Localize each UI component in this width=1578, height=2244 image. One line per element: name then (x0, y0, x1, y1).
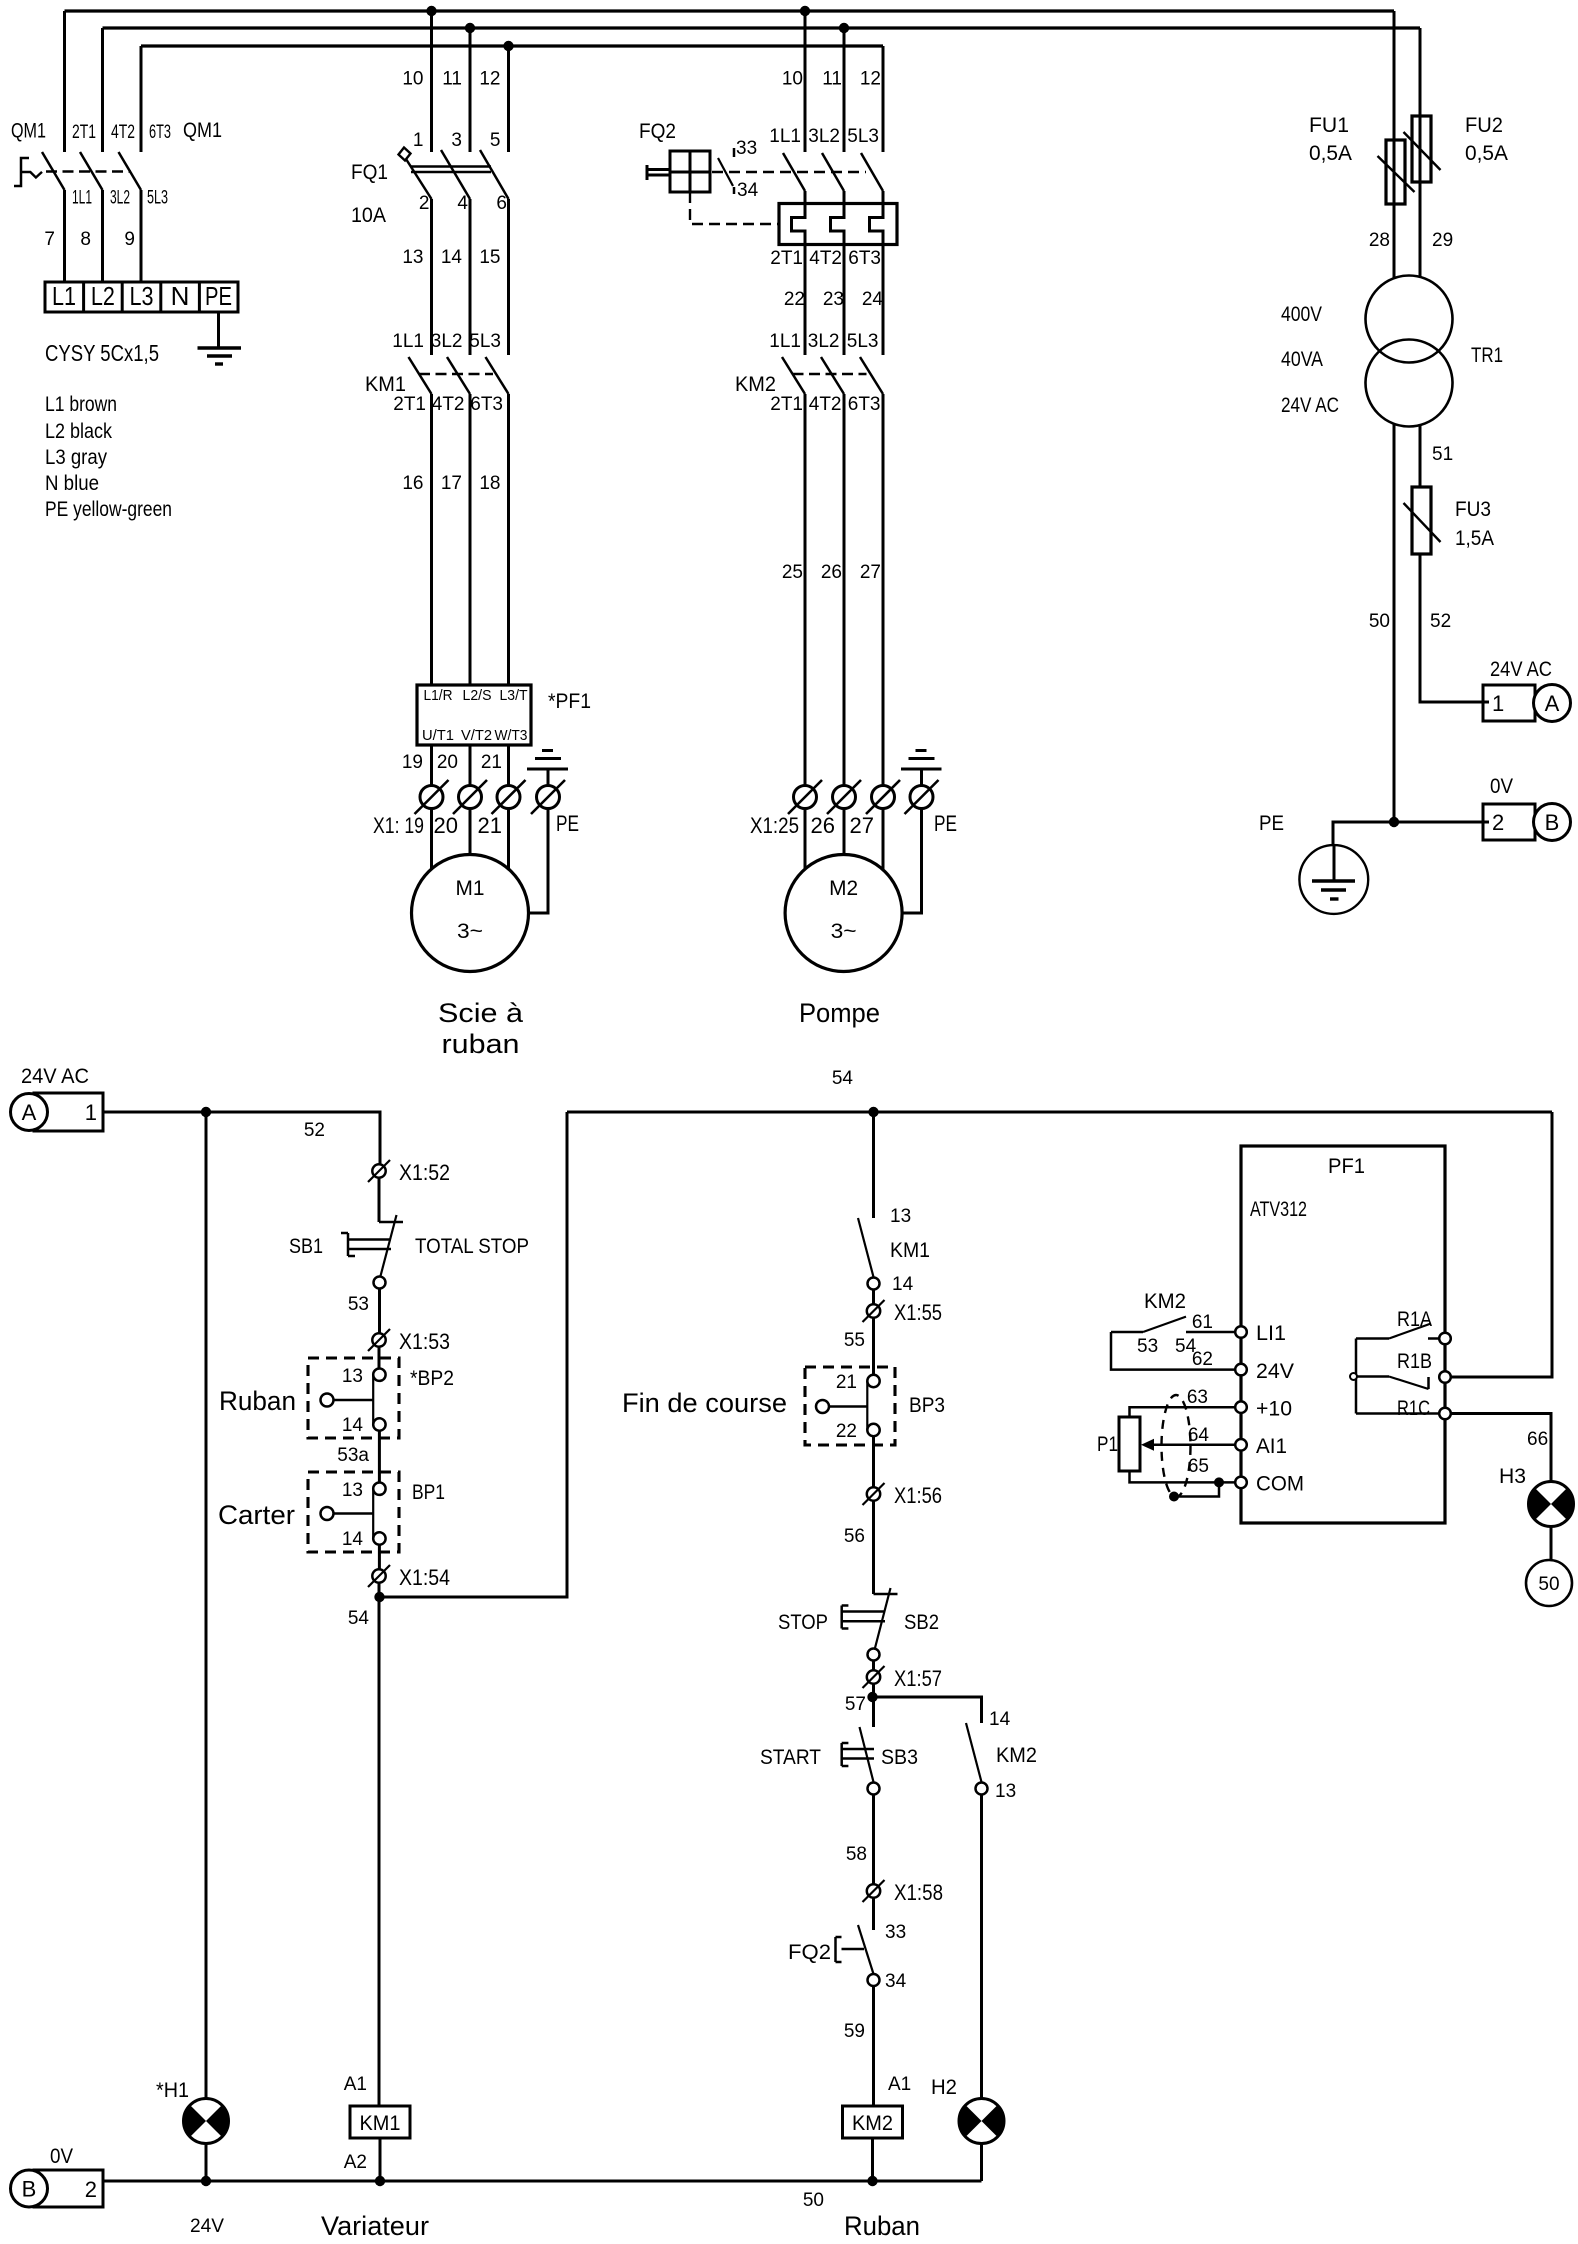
label H3 (1499, 1465, 1526, 1488)
svg-text:2T1: 2T1 (72, 122, 96, 143)
terminal X1:PE (saw) (531, 780, 565, 814)
label ATV312 (1250, 1198, 1307, 1221)
label 50 (node) (803, 2190, 824, 2211)
svg-text:V/T2: V/T2 (461, 727, 492, 744)
svg-text:2: 2 (1492, 810, 1504, 835)
svg-text:22: 22 (784, 289, 805, 310)
terminal X1:20 (453, 780, 487, 814)
svg-text:13: 13 (342, 1366, 363, 1387)
pin 1L1 (QM1) (72, 188, 92, 209)
svg-text:10: 10 (402, 69, 423, 90)
node junction KM2/0V (867, 2176, 877, 2186)
wire 54 (down to KM1 coil) (348, 1583, 379, 2106)
wire 23 (823, 289, 844, 310)
pin 1L1 (KM1) (392, 331, 424, 352)
indicator lamp H1 (184, 2099, 229, 2144)
pin 3L2 (KM1) (431, 331, 463, 352)
label SB3 (881, 1746, 918, 1769)
pin 34 (FQ2 top) (737, 180, 759, 201)
fuse FU1 (0,5A) (1378, 140, 1415, 204)
pin 6T3 (KM2) (848, 394, 881, 415)
wire M2 U (804, 809, 807, 873)
terminal strip L1 L2 L3 N PE (45, 281, 238, 312)
svg-text:L3: L3 (130, 281, 154, 311)
label H2 (931, 2076, 957, 2099)
wire 27 (860, 394, 883, 786)
pin 1L1 (FQ2) (769, 126, 801, 147)
terminal X1:26 (827, 780, 861, 814)
label *H1 (156, 2079, 189, 2102)
svg-text:A1: A1 (888, 2074, 911, 2095)
svg-text:M2: M2 (829, 877, 858, 900)
terminal AI1 (PF1) (1235, 1435, 1287, 1458)
terminal LI1 (PF1) (1235, 1322, 1286, 1345)
label A2 (KM1 coil) (344, 2152, 367, 2173)
svg-text:2: 2 (419, 193, 430, 214)
wire 57 (845, 1684, 874, 1727)
wire M2 PE (902, 809, 922, 914)
wire 11 (pump) (822, 28, 844, 152)
svg-text:3L2: 3L2 (808, 331, 840, 352)
wire KM1 aux to X1:55 (872, 1290, 875, 1305)
label 54 (bus) (832, 1068, 854, 1089)
wire 15 (479, 199, 508, 355)
pin 3L2 (FQ2) (808, 126, 840, 147)
label PE yellow-green (45, 498, 172, 521)
wire 24V control bus (A) (103, 1112, 380, 1164)
svg-text:SB1: SB1 (289, 1235, 323, 1258)
wire mechanical link FQ2 contacts (712, 171, 866, 173)
pin 21 (BP3) (836, 1372, 857, 1393)
wire QM1 pole1 feed (63, 11, 66, 152)
wire 12 (pump) (860, 46, 883, 152)
svg-text:1L1: 1L1 (72, 188, 92, 209)
svg-text:2T1: 2T1 (393, 394, 426, 415)
wire 29 (L2 to FU2/TR1) (1420, 28, 1453, 277)
wire M1 V (469, 809, 472, 857)
wire QM1 pole3 feed (140, 46, 143, 152)
svg-text:TOTAL STOP: TOTAL STOP (415, 1235, 529, 1258)
label L2 black (45, 420, 112, 443)
svg-text:14: 14 (342, 1529, 364, 1550)
pin 5L3 (QM1) (147, 188, 168, 209)
svg-text:6T3: 6T3 (848, 394, 881, 415)
svg-text:KM2: KM2 (852, 2112, 893, 2135)
drive PF1 ATV312 (control box) (1241, 1146, 1445, 1523)
wire 0V to connector B (1394, 821, 1489, 824)
svg-text:1L1: 1L1 (769, 331, 801, 352)
node junction 57 (867, 1692, 877, 1702)
label FU3 1,5A (1455, 498, 1494, 550)
svg-text:54: 54 (832, 1068, 854, 1089)
svg-text:25: 25 (782, 562, 803, 583)
pushbutton BP1 Carter (NO, pins 13-14) (308, 1472, 399, 1552)
svg-text:X1:53: X1:53 (399, 1329, 450, 1354)
wire 21 (481, 745, 509, 786)
contact FQ2 33-34 (power side) (718, 148, 734, 194)
svg-text:R1A: R1A (1397, 1308, 1432, 1331)
label Fin de course (622, 1388, 787, 1418)
svg-text:SB2: SB2 (904, 1611, 939, 1634)
label 26 (X1) (811, 813, 835, 838)
wire 55 (844, 1318, 874, 1375)
svg-text:3: 3 (451, 130, 462, 151)
pin 4T2 (KM1) (432, 394, 465, 415)
svg-text:*BP2: *BP2 (410, 1367, 454, 1390)
terminal X1:21 (492, 780, 526, 814)
wire 10 (402, 69, 423, 90)
wire 57 to KM2 aux branch (874, 1697, 982, 1723)
pin 3L2 (QM1) (110, 188, 130, 209)
node junction COM/shield (1214, 1477, 1224, 1487)
pin 2 (FQ1) (419, 193, 430, 214)
svg-text:13: 13 (995, 1781, 1016, 1802)
fuse FU2 (0,5A) (1404, 116, 1441, 182)
svg-text:1: 1 (85, 1100, 97, 1125)
svg-text:14: 14 (441, 247, 463, 268)
svg-text:65: 65 (1188, 1456, 1209, 1477)
label *PF1 (548, 690, 591, 713)
coil KM2 (Ruban contactor) (843, 2106, 903, 2138)
svg-text:27: 27 (850, 813, 874, 838)
svg-text:24V AC: 24V AC (1281, 394, 1339, 417)
svg-text:53a: 53a (337, 1445, 369, 1466)
svg-text:BP1: BP1 (412, 1481, 445, 1504)
node shield connection (1169, 1492, 1179, 1502)
wire bus line L2 (phase 2) (103, 26, 1421, 29)
svg-text:8: 8 (80, 229, 91, 250)
wire FQ1 pole1 feed (430, 11, 433, 152)
svg-text:A2: A2 (344, 2152, 367, 2173)
label TOTAL STOP (415, 1235, 529, 1258)
wire 22 (784, 289, 805, 310)
svg-text:6T3: 6T3 (470, 394, 503, 415)
svg-text:57: 57 (845, 1694, 866, 1715)
ground (protective earth circle) (1299, 845, 1368, 914)
svg-text:Ruban: Ruban (219, 1386, 296, 1416)
wire QM1 pole2 feed (101, 28, 104, 152)
label KM2 (drive interlock) (1144, 1290, 1186, 1313)
pin 33 (FQ2 top) (736, 138, 757, 159)
wire 56 (844, 1501, 874, 1594)
pin 13 (BP1) (342, 1480, 363, 1501)
wire 12 (479, 69, 500, 90)
svg-text:B: B (1545, 810, 1560, 835)
svg-text:24V: 24V (190, 2216, 224, 2237)
svg-text:14: 14 (892, 1274, 914, 1295)
label 21 (X1) (478, 813, 502, 838)
svg-text:L2/S: L2/S (463, 687, 492, 704)
motor M1 (3~) (412, 855, 529, 972)
circuit breaker FQ1 (3-pole, 10A) (399, 148, 509, 200)
svg-text:X1:52: X1:52 (399, 1160, 450, 1185)
pin 14 (KM1 aux) (892, 1274, 914, 1295)
pin 6T3 (FQ2) (848, 248, 881, 269)
svg-text:24: 24 (862, 289, 884, 310)
svg-text:24V AC: 24V AC (1490, 658, 1552, 681)
terminal +10 (PF1) (1235, 1398, 1292, 1421)
svg-text:20: 20 (434, 813, 458, 838)
node junction 54 (374, 1592, 384, 1602)
svg-text:50: 50 (1369, 611, 1390, 632)
svg-text:A1: A1 (344, 2074, 367, 2095)
svg-text:X1:58: X1:58 (894, 1880, 943, 1905)
svg-text:9: 9 (124, 229, 135, 250)
wire 26 (821, 394, 844, 786)
label X1:25 (750, 813, 799, 838)
wire 66 (R1C to H3) (1451, 1414, 1551, 1482)
contactor KM1 main contacts (409, 357, 509, 394)
svg-text:R1C: R1C (1397, 1397, 1430, 1420)
wire KM1 coil to 0V rail (379, 2138, 382, 2181)
svg-text:KM1: KM1 (360, 2112, 401, 2135)
wire LI1 loop to 24V (1111, 1332, 1235, 1370)
wire 18 (479, 394, 508, 685)
wire 9 (124, 190, 141, 282)
svg-text:28: 28 (1369, 230, 1390, 251)
label FU2 0,5A (1465, 114, 1508, 165)
terminal X1:PE (pump) (905, 780, 939, 814)
wire X1:52 to SB1 (378, 1178, 381, 1222)
svg-text:33: 33 (885, 1922, 906, 1943)
svg-text:17: 17 (441, 473, 462, 494)
svg-text:59: 59 (844, 2021, 865, 2042)
pin 54 (KM2 aux) (1175, 1336, 1197, 1357)
svg-text:H2: H2 (931, 2076, 957, 2099)
svg-text:A: A (22, 1100, 37, 1125)
wire 62 (1192, 1349, 1213, 1370)
pin 4T2 (QM1) (111, 122, 135, 143)
label FQ2 (control) (788, 1941, 831, 1964)
svg-text:10A: 10A (351, 204, 386, 227)
wire 52 (control) (304, 1120, 325, 1141)
wire 16 (402, 394, 431, 685)
label Scie à ruban (438, 998, 524, 1059)
coil KM1 (Variateur contactor) (350, 2106, 410, 2138)
svg-text:QM1: QM1 (183, 119, 222, 142)
label KM1 (aux) (890, 1239, 930, 1262)
wire M2 W (882, 809, 885, 873)
svg-text:11: 11 (442, 69, 462, 90)
svg-text:X1:25: X1:25 (750, 813, 799, 838)
wire 54 bus (top) (567, 1111, 1552, 1114)
terminal R1B (1439, 1371, 1451, 1383)
overload trip contacts FQ2 (3-pole) (783, 153, 883, 191)
label PE (saw) (556, 811, 579, 836)
node junction L3/FQ1 (503, 41, 513, 51)
svg-text:61: 61 (1192, 1312, 1213, 1333)
svg-text:13: 13 (890, 1206, 911, 1227)
svg-text:FU1: FU1 (1309, 114, 1349, 137)
pin 3 (FQ1) (451, 130, 462, 151)
svg-text:X1:54: X1:54 (399, 1565, 450, 1590)
label L1 brown (45, 393, 117, 416)
label 10A (FQ1 rating) (351, 204, 386, 227)
label BP1 (412, 1481, 445, 1504)
svg-text:PE: PE (556, 811, 579, 836)
svg-text:KM1: KM1 (890, 1239, 930, 1262)
label PF1 (control) (1328, 1155, 1365, 1178)
wire 8 (80, 190, 102, 282)
wire 50 (TR1 secondary) (1369, 424, 1394, 822)
svg-text:3L2: 3L2 (110, 188, 130, 209)
svg-text:1,5A: 1,5A (1455, 527, 1494, 550)
svg-text:22: 22 (836, 1421, 857, 1442)
svg-text:PE yellow-green: PE yellow-green (45, 498, 172, 521)
svg-text:5L3: 5L3 (469, 331, 501, 352)
svg-text:ruban: ruban (442, 1029, 520, 1059)
svg-text:20: 20 (437, 752, 458, 773)
pin 4T2 (KM2) (809, 394, 842, 415)
svg-text:23: 23 (823, 289, 844, 310)
wire 7 (44, 190, 64, 282)
pushbutton SB1 TOTAL STOP (NC, mushroom) (341, 1215, 403, 1289)
svg-text:0,5A: 0,5A (1465, 142, 1508, 165)
svg-text:50: 50 (1538, 1574, 1559, 1595)
label QM1 (right) (183, 119, 222, 142)
svg-text:24V: 24V (1256, 1360, 1294, 1383)
svg-text:1: 1 (413, 130, 424, 151)
indicator lamp H3 (1529, 1482, 1574, 1527)
svg-text:B: B (22, 2177, 37, 2202)
wire FQ1 pole2 feed (469, 28, 472, 152)
svg-text:L1: L1 (52, 281, 76, 311)
pin 53 (KM2 aux) (1137, 1336, 1158, 1357)
wire H1 branch (205, 1112, 208, 2099)
terminal X1:56 (863, 1483, 943, 1508)
svg-text:13: 13 (402, 247, 423, 268)
svg-text:63: 63 (1187, 1387, 1208, 1408)
svg-text:21: 21 (478, 813, 502, 838)
svg-text:L2: L2 (91, 281, 115, 311)
svg-text:62: 62 (1192, 1349, 1213, 1370)
pin 2T1 (KM1) (393, 394, 426, 415)
ground (PE symbol above pump PE terminal) (901, 751, 942, 786)
svg-text:L1 brown: L1 brown (45, 393, 117, 416)
wire X1:53 to BP2 (378, 1347, 381, 1369)
label KM2 (power) (735, 373, 776, 396)
pin 5L3 (KM2) (847, 331, 879, 352)
limit switch BP3 Fin de course (NC, pins 21-22) (805, 1367, 895, 1445)
wire 58 (846, 1795, 874, 1885)
svg-text:L2 black: L2 black (45, 420, 112, 443)
wire 53a (337, 1431, 379, 1483)
cable shield (dashed ellipse) (1162, 1395, 1191, 1497)
wire H3 to ref 50 (1550, 1527, 1553, 1561)
terminal R1C (1439, 1408, 1451, 1420)
svg-text:40VA: 40VA (1281, 348, 1323, 371)
wire 61 (1192, 1312, 1213, 1333)
wire KM2 aux to H2 (980, 1795, 983, 2099)
wire 59 (844, 1986, 874, 2106)
svg-text:KM2: KM2 (1144, 1290, 1186, 1313)
label CYSY 5Cx1,5 (supply cable) (45, 340, 159, 366)
motor M2 (3~) (785, 855, 902, 972)
label 27 (X1) (850, 813, 874, 838)
svg-text:Carter: Carter (218, 1500, 295, 1530)
svg-text:58: 58 (846, 1844, 867, 1865)
label KM2 (aux) (996, 1744, 1037, 1767)
label FQ2 (639, 120, 676, 143)
pin 4T2 (FQ2) (809, 248, 842, 269)
wire 14 (441, 199, 470, 355)
svg-text:66: 66 (1527, 1429, 1548, 1450)
wire 65 (P1 to COM) (1130, 1456, 1236, 1482)
wire 28 (L1 to FU1/TR1) (1369, 11, 1394, 278)
svg-text:24V AC: 24V AC (21, 1065, 89, 1088)
label 0V (connector B in) (50, 2145, 73, 2168)
svg-text:N: N (171, 281, 190, 311)
terminal R1A (1439, 1333, 1451, 1345)
terminal X1:58 (863, 1880, 944, 1905)
wire M1 W (507, 809, 510, 873)
contactor KM2 main contacts (782, 357, 883, 394)
terminal X1:25 (788, 780, 822, 814)
pin 14 (BP1) (342, 1529, 364, 1550)
svg-text:6: 6 (496, 193, 507, 214)
svg-text:L3 gray: L3 gray (45, 446, 107, 469)
svg-text:12: 12 (479, 69, 500, 90)
label FU1 0,5A (1309, 114, 1352, 165)
wire 53 (348, 1289, 380, 1334)
wire 11 (442, 69, 462, 90)
pin 14 (BP2) (342, 1415, 364, 1436)
svg-text:H3: H3 (1499, 1465, 1526, 1488)
wire BP1 to X1:54 (378, 1545, 381, 1570)
svg-text:1L1: 1L1 (769, 126, 801, 147)
svg-text:A: A (1545, 691, 1560, 716)
svg-text:52: 52 (1430, 611, 1451, 632)
terminal X1:54 (368, 1565, 450, 1590)
svg-text:3~: 3~ (457, 920, 483, 943)
label 24V (node) (190, 2216, 224, 2237)
svg-text:2T1: 2T1 (770, 394, 803, 415)
svg-text:11: 11 (822, 69, 842, 90)
wire H2 to 0V rail (980, 2144, 983, 2182)
svg-text:53: 53 (348, 1294, 369, 1315)
wire 63 (P1 to +10) (1130, 1387, 1236, 1417)
svg-text:53: 53 (1137, 1336, 1158, 1357)
pin 6T3 (QM1) (149, 122, 171, 143)
node junction L1/pump (800, 6, 810, 16)
svg-text:50: 50 (803, 2190, 824, 2211)
svg-text:14: 14 (342, 1415, 364, 1436)
svg-text:6T3: 6T3 (848, 248, 881, 269)
node junction H1 branch (201, 1107, 211, 1117)
label 24V AC (connector A in) (21, 1065, 89, 1088)
label A1 (KM1 coil) (344, 2074, 367, 2095)
terminal X1:53 (368, 1329, 450, 1354)
svg-text:7: 7 (44, 229, 55, 250)
pin 13 (BP2) (342, 1366, 363, 1387)
svg-text:21: 21 (481, 752, 502, 773)
terminal X1:52 (368, 1160, 450, 1185)
svg-text:CYSY 5Cx1,5: CYSY 5Cx1,5 (45, 340, 159, 366)
svg-text:*H1: *H1 (156, 2079, 189, 2102)
wire PE link (1333, 822, 1394, 846)
node junction L2/pump (839, 23, 849, 33)
svg-text:TR1: TR1 (1471, 344, 1503, 367)
svg-text:X1: 19: X1: 19 (373, 813, 424, 838)
node wire reference 50 (off-page) (1526, 1560, 1572, 1606)
label 400V (1281, 303, 1322, 326)
wire 19 (402, 745, 432, 786)
svg-text:PE: PE (1259, 812, 1284, 835)
label PE (pump) (934, 811, 957, 836)
thermal overload relay FQ2 operator box (647, 151, 710, 192)
svg-text:14: 14 (989, 1709, 1011, 1730)
contact KM2 13-14 (NO aux, hold-in) (966, 1723, 988, 1795)
